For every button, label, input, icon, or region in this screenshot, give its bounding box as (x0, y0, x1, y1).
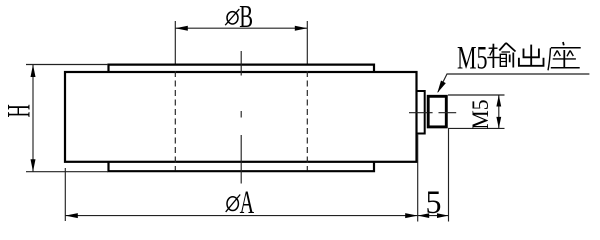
dim 5 extension right (448, 129, 450, 222)
svg-text:M5: M5 (468, 100, 493, 130)
dim 5 arrow right (437, 213, 449, 218)
dim oA arrow right (405, 213, 418, 218)
top flange plate (109, 65, 375, 72)
centerline horizontal (connector axis) (409, 112, 456, 114)
svg-text:B: B (239, 0, 253, 34)
leader line to connector (438, 74, 589, 92)
dim H extension top (26, 64, 108, 66)
dim oB label (227, 12, 238, 24)
dim oB arrow right (295, 26, 308, 31)
dim oA extension left (64, 168, 66, 221)
connector ring (417, 91, 425, 134)
svg-text:A: A (240, 185, 255, 221)
dim 5 arrow left (418, 213, 430, 218)
bottom flange plate (109, 162, 375, 171)
dim H dimension line (32, 65, 34, 172)
dim oA / 5 shared extension (417, 134, 419, 222)
centerline vertical (part axis) (240, 51, 242, 184)
dim M5 extension bottom (448, 127, 505, 129)
dim oB arrow left (175, 26, 188, 31)
hanzi shu (output) (487, 43, 515, 68)
dim oB extension line right (306, 21, 308, 64)
body outline (65, 72, 417, 162)
dim oA label (227, 197, 238, 211)
svg-text:M5: M5 (457, 41, 488, 77)
dim oA dimension line (65, 215, 417, 217)
M5 threaded plug (428, 96, 446, 127)
hanzi zuo (seat) (548, 42, 581, 70)
hidden bolt-hole line left (174, 71, 176, 171)
hanzi chu (out) (519, 45, 544, 66)
dim M5 arrow bottom (496, 117, 501, 128)
dim M5 dimension line (498, 95, 500, 128)
dim M5 extension top (448, 94, 505, 96)
dim 5 dimension line (418, 215, 449, 217)
dim oB extension line left (174, 21, 176, 64)
hidden bolt-hole line right (306, 71, 308, 171)
dim oA arrow left (65, 213, 78, 218)
dim M5 arrow top (496, 95, 501, 107)
svg-text:5: 5 (426, 185, 442, 221)
dim H arrow bottom (31, 159, 36, 172)
dim H extension bottom (26, 171, 108, 173)
leader arrow (437, 81, 446, 94)
dim oB dimension line (175, 27, 307, 29)
svg-text:H: H (2, 104, 38, 117)
dim H arrow top (31, 65, 36, 78)
